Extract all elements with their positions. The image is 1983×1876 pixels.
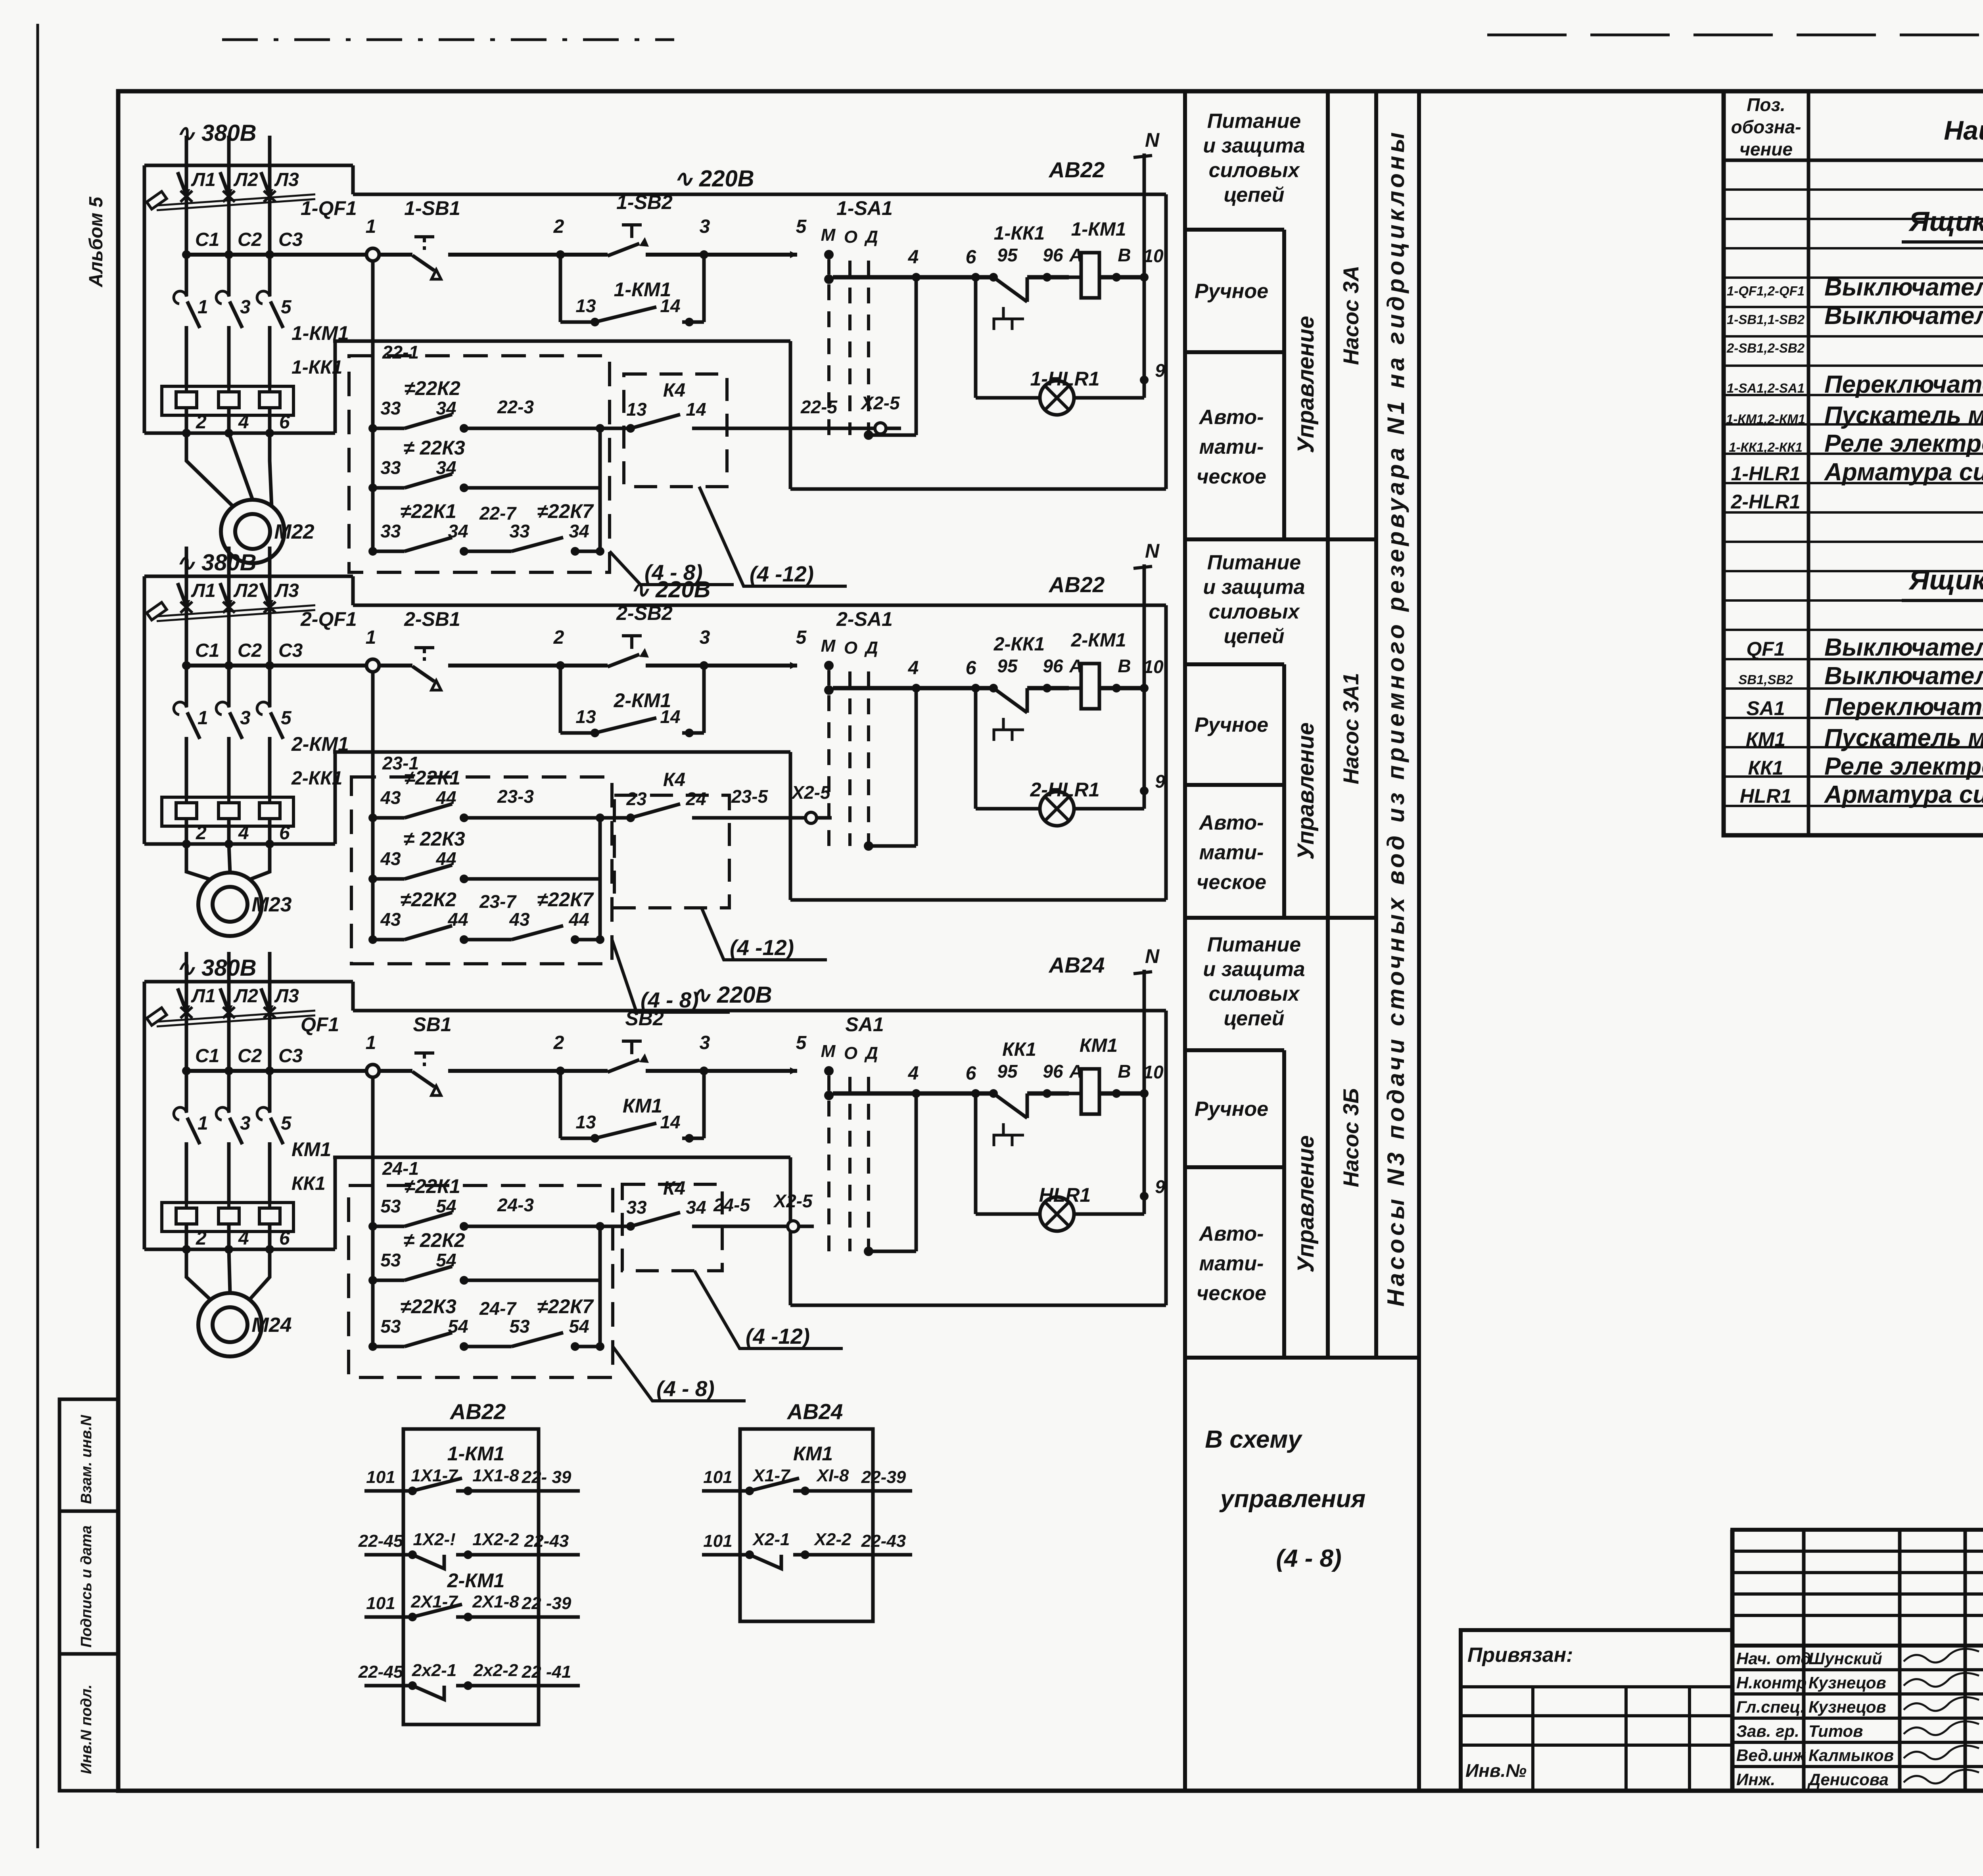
svg-text:2-КК1: 2-КК1 [993, 634, 1045, 655]
svg-text:3: 3 [240, 1113, 251, 1134]
group 2 bottom line [1185, 916, 1376, 920]
svg-text:2-КК1: 2-КК1 [291, 768, 342, 789]
svg-text:и защита: и защита [1203, 134, 1305, 157]
svg-text:С3: С3 [278, 640, 303, 661]
svg-text:КМ1: КМ1 [623, 1095, 662, 1117]
svg-text:Л1: Л1 [191, 580, 216, 601]
annotation (4-12) circuit 1 [699, 487, 847, 586]
svg-text:Привязан:: Привязан: [1467, 1644, 1573, 1667]
svg-text:Реле электротепловое: Реле электротепловое [1824, 430, 1983, 457]
component table [1724, 91, 1983, 835]
svg-text:Х2-5: Х2-5 [790, 782, 831, 803]
svg-text:М: М [821, 1042, 836, 1061]
svg-text:С1: С1 [195, 640, 219, 661]
interlock dashed box circuit 1 [349, 356, 610, 572]
svg-text:9: 9 [1155, 771, 1165, 792]
svg-text:2: 2 [196, 412, 207, 433]
annotation (4-12) circuit 2 [702, 908, 827, 960]
svg-text:Х1-7: Х1-7 [752, 1466, 791, 1485]
breaker 2-QF1 [178, 583, 188, 611]
svg-text:≠22К7: ≠22К7 [537, 888, 594, 911]
svg-text:4: 4 [238, 823, 249, 844]
svg-text:КК1: КК1 [292, 1173, 326, 1194]
svg-text:∿ 220В: ∿ 220В [673, 166, 754, 192]
aux contact КМ1 13-14 [559, 1071, 562, 1138]
group 1 управление divider [1282, 230, 1286, 539]
svg-text:4: 4 [238, 412, 249, 433]
svg-text:Нач. отд: Нач. отд [1736, 1649, 1811, 1668]
svg-text:23-3: 23-3 [497, 786, 534, 807]
svg-text:1-КК1,2-КК1: 1-КК1,2-КК1 [1729, 440, 1803, 455]
svg-text:Питание: Питание [1207, 933, 1301, 956]
svg-text:К4: К4 [663, 1178, 685, 1199]
annotation (4-8) circuit 1 [610, 551, 734, 585]
svg-text:2-КМ1: 2-КМ1 [1071, 630, 1126, 651]
svg-text:С3: С3 [278, 229, 303, 250]
wire: control bus segment 1 circuit 2 [184, 664, 412, 668]
В схему управления box [1185, 1356, 1419, 1360]
svg-text:13: 13 [575, 1112, 596, 1132]
svg-text:33: 33 [380, 398, 401, 418]
interlock row 2 circuit 3 [368, 1276, 377, 1285]
svg-text:QF1: QF1 [301, 1013, 339, 1036]
svg-text:ческое: ческое [1197, 1282, 1266, 1305]
svg-text:Инв.№: Инв.№ [1465, 1760, 1527, 1781]
svg-text:53: 53 [509, 1316, 530, 1337]
svg-text:34: 34 [569, 521, 589, 541]
svg-text:43: 43 [509, 909, 530, 930]
svg-text:6: 6 [279, 823, 290, 844]
enclosure bottom circuit 3 [790, 1304, 1166, 1307]
breaker QF1 [178, 988, 188, 1016]
svg-text:Ручное: Ручное [1195, 280, 1268, 303]
svg-text:Х2-5: Х2-5 [860, 393, 900, 413]
220V bus circuit 1 [353, 193, 1166, 196]
power box circuit 1 [144, 164, 353, 167]
aux contact 1-КМ1 13-14 [559, 255, 562, 322]
svg-text:цепей: цепей [1224, 1007, 1285, 1030]
power box circuit 2 [144, 575, 353, 578]
svg-text:1-КК1: 1-КК1 [994, 223, 1045, 244]
annotation (4-8) circuit 2 [612, 940, 730, 1012]
svg-text:Л1: Л1 [191, 169, 216, 190]
svg-text:2: 2 [553, 216, 564, 237]
node 6 circuit 3 [971, 1089, 980, 1098]
contactor КМ1 main contacts [185, 1071, 188, 1113]
node 1 circuit 2 [366, 659, 379, 672]
220V bus circuit 3 [353, 1009, 1166, 1013]
svg-text:Арматура сигнальная: Арматура сигнальная [1824, 781, 1983, 808]
svg-text:Ящик АВ24: Ящик АВ24 [1908, 564, 1983, 595]
svg-text:1-КМ1,2-КМ1: 1-КМ1,2-КМ1 [1726, 412, 1805, 426]
svg-text:4: 4 [908, 247, 919, 268]
group 2 питание bottom [1185, 662, 1284, 666]
svg-text:2-SВ2: 2-SВ2 [616, 602, 673, 624]
interlock row 2 circuit 2 [368, 875, 377, 883]
feeder lines Л1 Л2 Л3 circuit 3 [185, 952, 188, 1010]
svg-text:(4 -12): (4 -12) [730, 935, 794, 960]
wire: control bus segment 3 circuit 1 [646, 253, 797, 257]
svg-text:Денисова: Денисова [1807, 1770, 1889, 1789]
svg-text:КМ1: КМ1 [1746, 728, 1785, 750]
svg-text:SВ2: SВ2 [625, 1007, 664, 1030]
interlock row 1 circuit 3 [368, 1222, 377, 1231]
svg-text:Насос 3Б: Насос 3Б [1339, 1088, 1363, 1187]
svg-text:мати-: мати- [1199, 1252, 1264, 1275]
svg-text:13: 13 [575, 295, 596, 316]
power box circuit 3 [144, 980, 353, 984]
svg-text:Калмыков: Калмыков [1808, 1746, 1894, 1765]
signature squiggle Кузнецов [1904, 1673, 1979, 1687]
svg-text:К4: К4 [663, 769, 685, 790]
contactor 1-КМ1 main contacts [185, 255, 188, 296]
svg-text:Арматура сигнальная: Арматура сигнальная [1824, 458, 1983, 486]
svg-text:Авто-: Авто- [1199, 811, 1264, 834]
svg-text:3: 3 [700, 1032, 710, 1053]
svg-text:Питание: Питание [1207, 551, 1301, 574]
svg-text:22-39: 22-39 [861, 1467, 906, 1487]
step to 220V bus circuit 2 [351, 576, 355, 605]
svg-text:2-КМ1: 2-КМ1 [447, 1569, 505, 1592]
svg-text:Л2: Л2 [233, 169, 258, 190]
enclosure right edge circuit 2 [1164, 605, 1168, 900]
svg-text:ческое: ческое [1197, 465, 1266, 488]
wire 24-1 circuit 3 [333, 1156, 790, 1159]
svg-text:цепей: цепей [1224, 625, 1285, 648]
svg-text:101: 101 [366, 1467, 395, 1487]
svg-text:Переключатель: Переключатель [1824, 693, 1983, 721]
signature squiggle Титов [1904, 1721, 1979, 1735]
interlock row 3 circuit 3 [368, 1342, 377, 1351]
svg-text:SА1: SА1 [845, 1013, 884, 1036]
svg-text:22-43: 22-43 [861, 1531, 906, 1551]
svg-text:2: 2 [553, 1032, 564, 1053]
sheet top edge dash-dot left [222, 38, 674, 41]
wire 23-1 circuit 2 [333, 750, 790, 754]
svg-text:Взам. инв.N: Взам. инв.N [78, 1414, 95, 1504]
group 3 питание bottom [1185, 1048, 1284, 1052]
svg-text:Д: Д [864, 638, 878, 658]
svg-text:2-SB1: 2-SB1 [404, 608, 460, 630]
svg-text:1Х2-2: 1Х2-2 [472, 1530, 519, 1549]
svg-text:Вед.инж: Вед.инж [1736, 1746, 1806, 1765]
svg-text:1Х2-!: 1Х2-! [413, 1530, 456, 1549]
svg-text:3: 3 [700, 627, 710, 648]
arrow to node 5 circuit 1 [790, 251, 797, 258]
svg-text:∿ 220В: ∿ 220В [691, 982, 772, 1008]
svg-text:силовых: силовых [1209, 982, 1300, 1005]
svg-text:95: 95 [997, 1061, 1018, 1082]
group 1 bottom line [1185, 537, 1376, 541]
svg-text:2-SB1,2-SB2: 2-SB1,2-SB2 [1726, 341, 1805, 355]
svg-text:КК1: КК1 [1002, 1039, 1036, 1060]
group 3 bottom line [1185, 1356, 1376, 1360]
wire: control bus segment 3 circuit 2 [646, 664, 797, 668]
group 3 ручное bottom [1185, 1165, 1284, 1169]
annotation (4-12) circuit 3 [694, 1271, 843, 1348]
svg-text:5: 5 [796, 1032, 807, 1053]
svg-text:22 -41: 22 -41 [522, 1662, 572, 1682]
svg-text:54: 54 [569, 1316, 589, 1337]
svg-text:3: 3 [240, 708, 251, 729]
group 1 ручное bottom [1185, 350, 1284, 354]
group 1 питание bottom [1185, 228, 1284, 232]
wire: control bus segment 2 circuit 3 [448, 1069, 608, 1073]
svg-text:1-QF1: 1-QF1 [301, 197, 357, 219]
connector row 101 X1-7 X1-8 22-39 [702, 1489, 750, 1493]
svg-text:≠22К3: ≠22К3 [400, 1295, 456, 1318]
svg-text:6: 6 [966, 658, 976, 679]
svg-text:22-43: 22-43 [524, 1531, 569, 1551]
svg-text:Инж.: Инж. [1736, 1770, 1775, 1789]
svg-text:(4 - 8): (4 - 8) [656, 1376, 715, 1401]
svg-text:Кузнецов: Кузнецов [1808, 1698, 1886, 1716]
wire: control bus segment 1 circuit 1 [184, 253, 412, 257]
svg-text:Л2: Л2 [233, 580, 258, 601]
node 2 circuit 1 [556, 250, 565, 259]
svg-text:О: О [844, 638, 857, 658]
svg-text:1-SB1,1-SB2: 1-SB1,1-SB2 [1727, 312, 1805, 327]
svg-text:1-SB1: 1-SB1 [404, 197, 460, 219]
svg-text:М: М [821, 225, 836, 245]
svg-text:101: 101 [703, 1531, 732, 1551]
left margin stamp boxes [59, 1399, 118, 1791]
svg-text:44: 44 [447, 909, 468, 930]
connector row 22-45 2X2-1 2X2-2 22-41 [364, 1684, 412, 1688]
svg-text:Реле электротепловое: Реле электротепловое [1824, 753, 1983, 780]
svg-text:управления: управления [1219, 1485, 1365, 1513]
left rail from node1 circuit 2 [371, 672, 375, 940]
svg-text:2х2-2: 2х2-2 [473, 1661, 518, 1680]
svg-text:1-SA1,2-SA1: 1-SA1,2-SA1 [1727, 381, 1805, 395]
wire: coil row circuit 2 [833, 686, 993, 691]
svg-text:Ящик АВ22: Ящик АВ22 [1908, 206, 1983, 237]
svg-text:Шунский: Шунский [1808, 1649, 1882, 1668]
svg-text:43: 43 [380, 909, 401, 930]
svg-text:АВ22: АВ22 [1048, 157, 1105, 182]
svg-text:22-45: 22-45 [358, 1531, 403, 1551]
svg-text:Альбом 5: Альбом 5 [86, 196, 107, 288]
svg-text:Л3: Л3 [274, 580, 299, 601]
svg-text:101: 101 [366, 1594, 395, 1613]
svg-text:Управление: Управление [1293, 1135, 1319, 1272]
svg-text:Л1: Л1 [191, 986, 216, 1007]
connector row 101 X2-1 X2-2 22-43 [702, 1553, 750, 1557]
node 1 circuit 1 [366, 248, 379, 261]
step to 220V bus circuit 1 [351, 165, 355, 194]
svg-text:53: 53 [380, 1316, 401, 1337]
column mid vertical [1326, 91, 1330, 1358]
svg-text:44: 44 [435, 787, 456, 808]
feeder lines Л1 Л2 Л3 circuit 2 [185, 547, 188, 605]
node 1 circuit 3 [366, 1065, 379, 1077]
svg-text:Подпись и дата: Подпись и дата [78, 1525, 95, 1648]
svg-text:24: 24 [685, 788, 706, 809]
svg-text:≠22К2: ≠22К2 [404, 377, 460, 399]
svg-text:2х2-1: 2х2-1 [412, 1661, 457, 1680]
svg-text:1Х1-7: 1Х1-7 [411, 1466, 458, 1485]
wire 22-1 circuit 1 [333, 340, 790, 343]
node 4 circuit 3 [912, 1089, 921, 1098]
sheet top edge dash right [1487, 34, 1983, 36]
svg-text:(4 -12): (4 -12) [746, 1324, 810, 1348]
svg-text:34: 34 [436, 398, 456, 418]
svg-text:1: 1 [366, 216, 376, 237]
node 3 circuit 3 [700, 1067, 708, 1075]
svg-text:АВ22: АВ22 [449, 1399, 506, 1424]
svg-text:1-SВ2: 1-SВ2 [616, 191, 673, 213]
strip right vertical (full height) [1417, 91, 1421, 1791]
svg-text:1-КМ1: 1-КМ1 [614, 278, 671, 301]
motor М24 [186, 1249, 211, 1300]
svg-text:Выключатель автоматический: Выключатель автоматический [1824, 274, 1983, 301]
svg-text:В: В [1118, 245, 1131, 265]
svg-text:(4 - 8): (4 - 8) [1276, 1545, 1341, 1572]
svg-text:≠ 22К3: ≠ 22К3 [403, 437, 465, 459]
svg-text:Ручное: Ручное [1195, 1098, 1268, 1121]
svg-text:чение: чение [1739, 139, 1793, 159]
svg-text:43: 43 [380, 848, 401, 869]
node 4 circuit 2 [912, 684, 921, 692]
svg-text:ческое: ческое [1197, 871, 1266, 894]
svg-text:2: 2 [196, 1228, 207, 1249]
svg-text:6: 6 [966, 1063, 976, 1084]
svg-text:КМ1: КМ1 [292, 1138, 331, 1161]
interlock row 3 circuit 1 [368, 547, 377, 556]
svg-text:Авто-: Авто- [1199, 406, 1264, 429]
svg-text:Насосы N3 подачи сточных в: Насосы N3 подачи сточных вод из приемног… [1383, 129, 1409, 1307]
svg-text:33: 33 [380, 457, 401, 478]
svg-text:1: 1 [366, 1032, 376, 1053]
svg-text:КМ1: КМ1 [1080, 1035, 1118, 1056]
breaker 1-QF1 [178, 172, 188, 200]
svg-text:53: 53 [380, 1196, 401, 1216]
node 2 circuit 2 [556, 661, 565, 670]
enclosure right edge circuit 1 [1164, 194, 1168, 489]
svg-text:≠ 22К2: ≠ 22К2 [403, 1229, 465, 1251]
K4 contact circuit 2 [614, 795, 729, 908]
svg-text:2-КМ1: 2-КМ1 [614, 689, 671, 712]
svg-text:54: 54 [436, 1250, 456, 1270]
svg-text:Наименование: Наименование [1944, 115, 1983, 146]
svg-text:1-КМ1: 1-КМ1 [1071, 219, 1126, 240]
svg-text:Управление: Управление [1293, 722, 1319, 859]
svg-text:Ручное: Ручное [1195, 714, 1268, 737]
svg-text:≠22К7: ≠22К7 [537, 1295, 594, 1318]
svg-text:К4: К4 [663, 380, 685, 401]
wire: control bus segment 1 circuit 3 [184, 1069, 412, 1073]
svg-text:QF1: QF1 [1746, 638, 1785, 660]
svg-text:Л2: Л2 [233, 986, 258, 1007]
svg-text:Выключатель кнопочный: Выключатель кнопочный [1824, 302, 1983, 330]
svg-text:Пускатель магнитный: Пускатель магнитный [1824, 724, 1983, 752]
svg-text:(4 -12): (4 -12) [750, 562, 814, 586]
svg-text:10: 10 [1143, 656, 1164, 677]
node 4 circuit 1 [912, 273, 921, 282]
enclosure right edge circuit 3 [1164, 1011, 1168, 1305]
svg-text:Зав. гр.: Зав. гр. [1736, 1722, 1799, 1740]
interlock row 2 circuit 1 [368, 483, 377, 492]
svg-text:≠22К2: ≠22К2 [400, 888, 456, 911]
svg-text:22-3: 22-3 [497, 397, 534, 417]
svg-text:В: В [1118, 656, 1131, 676]
wire: control bus segment 3 circuit 3 [646, 1069, 797, 1073]
wire: control bus segment 2 circuit 2 [448, 664, 608, 668]
signature squiggle Шунский [1904, 1649, 1979, 1663]
column left vertical [1183, 91, 1187, 1791]
svg-text:5: 5 [796, 216, 807, 237]
svg-text:4: 4 [908, 1063, 919, 1084]
motor М23 [186, 844, 211, 880]
signature squiggle Денисова [1904, 1770, 1979, 1784]
pump column right vertical [1374, 91, 1378, 1358]
svg-text:24-3: 24-3 [497, 1195, 534, 1215]
node 3 circuit 2 [700, 661, 708, 670]
svg-text:Авто-: Авто- [1199, 1222, 1264, 1245]
svg-text:1Х1-8: 1Х1-8 [472, 1466, 519, 1485]
svg-text:96: 96 [1043, 1061, 1063, 1082]
svg-text:SA1: SA1 [1746, 697, 1785, 719]
svg-text:22 -39: 22 -39 [522, 1594, 572, 1613]
node 3 circuit 1 [700, 250, 708, 259]
node 6 circuit 1 [971, 273, 980, 282]
K4 contact circuit 3 [622, 1184, 722, 1271]
svg-text:2: 2 [553, 627, 564, 648]
svg-text:Титов: Титов [1808, 1722, 1863, 1740]
svg-text:АВ24: АВ24 [1048, 953, 1105, 977]
svg-text:О: О [844, 1044, 857, 1063]
interlock dashed box circuit 2 [351, 777, 612, 964]
svg-text:1-SА1: 1-SА1 [836, 197, 893, 219]
svg-text:4: 4 [908, 658, 919, 679]
svg-text:1-HLR1: 1-HLR1 [1731, 462, 1800, 485]
svg-text:Насос 3А1: Насос 3А1 [1339, 673, 1363, 784]
svg-text:Поз.: Поз. [1747, 94, 1785, 115]
svg-text:33: 33 [626, 1197, 647, 1218]
svg-text:Х2-2: Х2-2 [813, 1530, 852, 1549]
aux contact 2-КМ1 13-14 [559, 666, 562, 733]
svg-text:33: 33 [509, 521, 530, 541]
svg-text:Л3: Л3 [274, 986, 299, 1007]
svg-text:Питание: Питание [1207, 110, 1301, 133]
svg-text:Управление: Управление [1293, 316, 1319, 453]
svg-text:2: 2 [196, 823, 207, 844]
svg-text:1: 1 [366, 627, 376, 648]
svg-text:1-HLR1: 1-HLR1 [1030, 368, 1099, 390]
group 3 управление divider [1282, 1050, 1286, 1358]
svg-text:N: N [1145, 129, 1160, 151]
svg-text:54: 54 [448, 1316, 468, 1337]
group 2 управление divider [1282, 664, 1286, 918]
svg-text:Д: Д [864, 1044, 878, 1063]
svg-text:КК1: КК1 [1748, 757, 1783, 779]
svg-text:и защита: и защита [1203, 576, 1305, 599]
connector box АВ24 (bottom) [740, 1429, 873, 1621]
svg-text:2-HLR1: 2-HLR1 [1030, 779, 1099, 801]
connector row 101 2X1-7 2X1-8 22-39 [364, 1615, 412, 1619]
svg-text:1-КК1: 1-КК1 [292, 357, 342, 378]
node 2 circuit 3 [556, 1067, 565, 1075]
svg-text:≠22К1: ≠22К1 [404, 1175, 460, 1197]
svg-text:Х2-1: Х2-1 [752, 1530, 790, 1549]
personnel rows [1732, 1644, 1983, 1647]
connector row 101 1X1-7 1X1-8 22-39 [364, 1489, 412, 1493]
svg-text:≠22К1: ≠22К1 [400, 500, 456, 522]
svg-text:5: 5 [281, 297, 292, 318]
svg-text:1: 1 [198, 1113, 208, 1134]
svg-text:5: 5 [796, 627, 807, 648]
svg-text:53: 53 [380, 1250, 401, 1270]
